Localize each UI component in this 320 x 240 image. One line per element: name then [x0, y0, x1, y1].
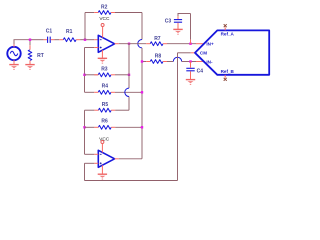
- wire C3 top run: [178, 13, 191, 15]
- svg-text:Ref_B: Ref_B: [221, 69, 235, 74]
- wire mid vertical upper: [128, 44, 130, 88]
- wire R8 to hop: [167, 61, 173, 63]
- pin stub R5 left: [94, 109, 98, 111]
- pin stub R3 left: [94, 74, 98, 76]
- pin stub R2 left: [94, 12, 98, 14]
- ground under C3: [173, 28, 182, 30]
- pin stub op2 +in: [94, 162, 98, 164]
- wire hop to IN- pin: [182, 61, 196, 63]
- wire left vertical R5 to op2 +in: [84, 110, 86, 154]
- pin stub C3 bottom: [177, 23, 179, 26]
- pin stub C1 left: [44, 39, 47, 41]
- resistor RT: [28, 50, 32, 61]
- wire op2 out to right vertical: [119, 158, 142, 160]
- svg-text:CM: CM: [200, 51, 207, 56]
- pin stub op1 -in: [94, 39, 98, 41]
- wire right vertical to R8: [142, 61, 146, 63]
- wire right vertical R4 to R6: [141, 92, 143, 127]
- svg-text:R5: R5: [102, 102, 109, 108]
- ground under V1: [9, 64, 18, 66]
- no-connect X Ref_A: [224, 24, 227, 27]
- wire right vertical upper: [141, 13, 143, 40]
- wire to R2: [85, 12, 94, 14]
- wire CM left run: [178, 52, 191, 54]
- wire left vertical to op2 -in: [85, 153, 95, 155]
- wire left corner to R4: [85, 91, 95, 93]
- pin stub C1 right: [51, 39, 55, 41]
- pin stub op1 +in: [94, 47, 98, 49]
- junction IN+ / C3 net: [189, 43, 191, 45]
- wire to R6: [85, 126, 95, 128]
- op-amp U2: [98, 150, 114, 167]
- wire -in node up to R2 row: [84, 13, 86, 40]
- wire hop over R4: [125, 88, 129, 96]
- pin stub R7 left: [146, 43, 150, 45]
- wire to R3: [85, 74, 99, 76]
- ground under op1: [98, 57, 107, 59]
- wire mid vertical lower: [128, 97, 130, 111]
- wire V1 up: [13, 40, 15, 45]
- wire R4 to right vertical: [115, 91, 142, 93]
- wire right vertical R8 to R4: [141, 62, 143, 93]
- wire R3 to mid vertical: [115, 74, 129, 76]
- pin stub R4 left: [94, 91, 98, 93]
- wire op1 +in left: [85, 47, 95, 49]
- capacitor C4: [186, 67, 194, 69]
- svg-text:IN-: IN-: [206, 60, 213, 65]
- wire right vertical to op2 output: [141, 127, 143, 159]
- pin stub R8 left: [146, 61, 150, 63]
- junction R6 right: [141, 126, 143, 128]
- resistor R1: [63, 38, 76, 42]
- junction R6 left: [83, 126, 85, 128]
- wire R6 to right vertical: [115, 126, 142, 128]
- diff-amp block U3: [195, 30, 269, 74]
- svg-text:C3: C3: [165, 18, 172, 24]
- wire V1 to RT node: [14, 39, 31, 41]
- svg-text:IN+: IN+: [206, 42, 214, 47]
- wire node to RT: [29, 40, 31, 46]
- pin stub R7 right: [163, 43, 167, 45]
- svg-text:R1: R1: [66, 29, 73, 35]
- wire R2 to right vertical: [115, 12, 142, 14]
- stub C3 to ground: [177, 26, 179, 29]
- pin stub C4 bottom: [190, 71, 192, 79]
- junction op1 out / mid vertical: [128, 43, 130, 45]
- resistor R7: [150, 42, 163, 46]
- junction R8 left: [141, 60, 143, 62]
- pin stub R1 right: [76, 39, 80, 41]
- junction node source/RT: [29, 39, 31, 41]
- wire hop over op1 output: [138, 40, 142, 48]
- wire node to C1: [30, 39, 44, 41]
- wire R7 to IN+ pin: [167, 43, 196, 45]
- wire bottom run to CM vertical: [85, 180, 178, 182]
- junction R3 right: [128, 74, 130, 76]
- wire R1 to op1 -in: [80, 39, 94, 41]
- resistor R6: [98, 125, 111, 129]
- svg-text:RT: RT: [37, 53, 44, 59]
- ground under RT: [25, 64, 34, 66]
- pin stub R4 right: [111, 91, 115, 93]
- svg-text:R3: R3: [101, 67, 108, 73]
- svg-text:R2: R2: [101, 4, 108, 10]
- pin stub R3 right: [111, 74, 115, 76]
- pin stub Ref_A: [224, 27, 226, 30]
- ground under op2: [98, 173, 107, 175]
- junction op1 -in node: [84, 39, 86, 41]
- wire op2 +in down: [84, 163, 86, 180]
- svg-text:R8: R8: [155, 54, 162, 60]
- wire op1 out to R7: [119, 43, 146, 45]
- pin stub VCC op1: [102, 27, 104, 38]
- resistor R8: [150, 60, 163, 64]
- resistor R3: [98, 73, 111, 77]
- pin stub CM: [191, 52, 195, 54]
- resistor R4: [98, 90, 111, 94]
- pin stub op1 out: [115, 43, 119, 45]
- pin stub V1 top: [13, 44, 15, 47]
- pin stub C4 top: [190, 62, 192, 68]
- pin stub RT top: [29, 45, 31, 50]
- wire right vertical to R8 tap: [141, 48, 143, 62]
- pin stub R6 left: [94, 126, 98, 128]
- pin stub R5 right: [111, 109, 115, 111]
- wire hop over CM vertical: [173, 57, 181, 61]
- svg-text:C1: C1: [46, 29, 53, 35]
- op-amp U1: [98, 35, 114, 52]
- pin stub R8 right: [163, 61, 167, 63]
- resistor R5: [98, 108, 111, 112]
- wire C1 to R1: [54, 39, 59, 41]
- pin stub op2 out: [115, 158, 119, 160]
- wire left vertical +in to R4: [84, 48, 86, 93]
- wire C3 up: [177, 14, 179, 17]
- junction R4 right: [141, 91, 143, 93]
- no-connect X Ref_B: [224, 78, 227, 81]
- junction R3 left: [83, 74, 85, 76]
- pin stub C3 top: [177, 16, 179, 19]
- pin stub R6 right: [111, 126, 115, 128]
- pin stub VCC op2: [101, 144, 103, 153]
- pin stub op2 -in: [94, 153, 98, 155]
- pin stub IN-: [196, 61, 204, 63]
- resistor R2: [98, 11, 111, 15]
- svg-text:Ref_A: Ref_A: [221, 32, 235, 37]
- pin stub op1 gnd: [101, 50, 103, 58]
- pin stub Ref_B: [224, 75, 226, 78]
- pin stub R1 left: [59, 39, 63, 41]
- capacitor C3: [174, 19, 182, 21]
- svg-text:C4: C4: [197, 68, 204, 74]
- svg-text:R4: R4: [102, 84, 109, 90]
- pin stub RT bottom: [29, 60, 31, 64]
- ground under C4: [186, 79, 195, 81]
- pin stub R2 right: [111, 12, 115, 14]
- pin stub V1 bottom: [13, 60, 15, 64]
- svg-text:R7: R7: [154, 36, 161, 42]
- wire C3 down to IN+: [190, 14, 192, 40]
- pin stub IN+: [196, 43, 204, 45]
- wire R5 to mid vertical: [115, 109, 129, 111]
- wire CM vertical: [177, 53, 179, 181]
- junction IN- / C4: [189, 60, 191, 62]
- source V1 sine: [7, 47, 20, 60]
- svg-text:VCC: VCC: [99, 16, 110, 22]
- svg-text:R6: R6: [101, 119, 108, 125]
- wire op2 +in left: [85, 162, 95, 164]
- pin-ish stub C3 net bottom: [190, 40, 192, 44]
- capacitor C1: [47, 37, 49, 43]
- pin stub op2 gnd: [101, 165, 103, 174]
- wire left corner to R5: [85, 109, 95, 111]
